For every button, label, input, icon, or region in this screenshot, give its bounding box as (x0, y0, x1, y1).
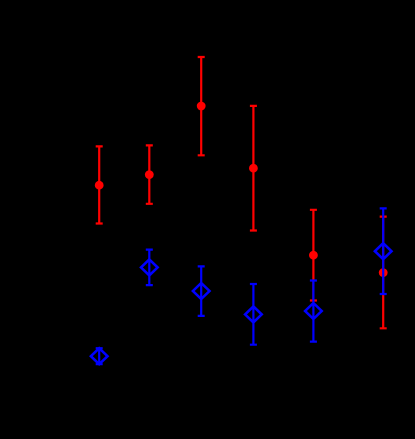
blue series point 3 error bar (198, 266, 205, 316)
blue series point 4 marker (open diamond) (245, 306, 262, 322)
red series point 5 error bar (310, 210, 317, 301)
blue series point 2 error bar (146, 250, 153, 286)
red series point 6 error bar (380, 217, 387, 329)
blue series point 2 marker (open diamond) (141, 259, 158, 275)
red series point 3 marker (197, 102, 206, 111)
blue series point 1 marker (open diamond) (91, 348, 108, 364)
blue series point 5 error bar (310, 281, 317, 342)
blue series point 1 error bar (96, 348, 103, 364)
red series point 4 marker (249, 164, 258, 173)
blue series point 4 error bar (250, 284, 257, 345)
red series point 2 error bar (146, 145, 153, 203)
red series point 1 error bar (96, 146, 103, 223)
red series point 3 error bar (198, 57, 205, 155)
blue series point 6 marker (open diamond) (375, 243, 392, 259)
red series point 2 marker (145, 170, 154, 179)
red series point 1 marker (95, 181, 104, 190)
red series point 4 error bar (250, 106, 257, 231)
blue series point 5 marker (open diamond) (305, 303, 322, 319)
red series point 5 marker (309, 251, 318, 260)
blue series point 3 marker (open diamond) (193, 283, 210, 299)
blue series point 6 error bar (380, 208, 387, 294)
red series point 6 marker (379, 268, 388, 277)
